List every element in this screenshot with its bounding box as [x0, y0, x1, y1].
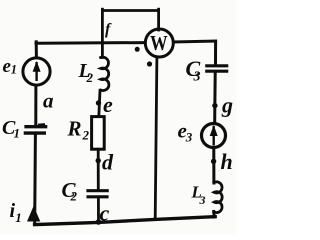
svg-text:W: W [150, 31, 168, 55]
svg-text:1: 1 [11, 63, 17, 77]
svg-text:e: e [103, 92, 113, 117]
svg-text:2: 2 [86, 70, 94, 85]
svg-text:R: R [67, 117, 82, 141]
svg-text:3: 3 [185, 130, 193, 145]
svg-text:a: a [43, 89, 54, 113]
svg-text:3: 3 [199, 193, 206, 207]
svg-text:d: d [102, 150, 114, 175]
svg-text:g: g [221, 93, 233, 118]
svg-text:2: 2 [82, 128, 90, 143]
svg-text:1: 1 [15, 210, 21, 225]
svg-text:h: h [221, 149, 233, 174]
svg-text:3: 3 [193, 70, 201, 85]
svg-text:2: 2 [70, 189, 78, 204]
svg-text:c: c [100, 201, 110, 226]
svg-text:1: 1 [14, 126, 21, 141]
